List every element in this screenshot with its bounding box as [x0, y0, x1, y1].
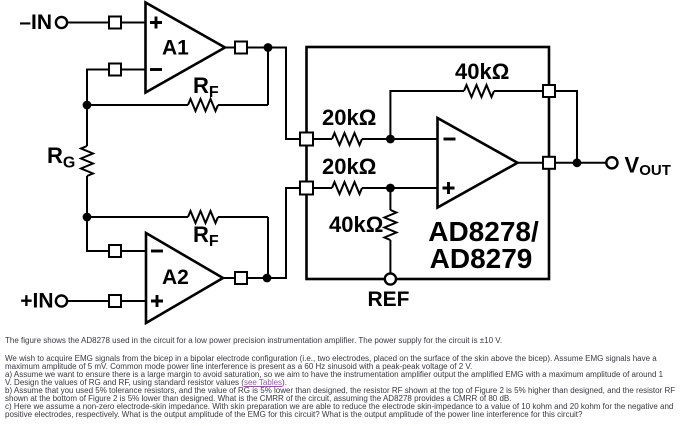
pin 1 (inverting input pin)	[300, 133, 313, 146]
wire pad to A2 plus input	[121, 300, 146, 302]
pad P6 (A2 output)	[235, 272, 247, 284]
wire junction down to 40k bottom	[389, 188, 391, 210]
resistor 20k top	[332, 133, 362, 145]
wire pad left and down to node RG-top	[87, 70, 109, 106]
resistor 40k bottom	[384, 210, 396, 240]
wire A2-out right and up to pin2	[267, 188, 300, 278]
terminal REF	[385, 273, 396, 284]
problem text paragraph	[5, 355, 700, 419]
terminal VOUT	[606, 157, 617, 168]
wire pad to junction	[247, 47, 268, 49]
resistor RF (bottom)	[188, 211, 218, 223]
wire pin1 to 20k top	[313, 138, 332, 140]
wire RF bottom to A2 output node	[218, 217, 268, 278]
wire A1 minus input to pad	[121, 69, 146, 71]
node RG-bottom junction	[83, 213, 92, 222]
wire node to RF top resistor	[87, 104, 188, 106]
IC outline AD8278	[307, 47, 550, 279]
pad P3 (A1 output)	[235, 42, 247, 54]
pad P1 (-IN)	[109, 17, 121, 29]
terminal -IN	[56, 17, 67, 28]
svg-text:40kΩ: 40kΩ	[455, 59, 509, 84]
wire node to RF bottom resistor	[87, 216, 188, 218]
wire node down to A2 minus pad	[87, 217, 109, 251]
node output junction	[573, 158, 582, 167]
node A1-out junction	[264, 43, 273, 52]
resistor RG	[81, 146, 93, 176]
wire U1 output to pad	[518, 162, 544, 164]
pad P2 (A1 inverting input)	[109, 64, 121, 76]
wire output pin to VOUT	[555, 162, 606, 164]
svg-text:RF: RF	[193, 222, 219, 250]
wire junction up to 40k top	[390, 91, 464, 139]
wire -IN to pad	[67, 22, 109, 24]
A1 minus sign	[150, 68, 162, 71]
svg-text:AD8279: AD8279	[430, 243, 533, 274]
A1 plus sign	[150, 17, 162, 29]
node A2-out junction	[263, 274, 272, 283]
wire pad to junction	[247, 277, 267, 279]
svg-text:RF: RF	[193, 73, 219, 101]
svg-text:A1: A1	[162, 37, 189, 60]
wire 40k top to pin3	[494, 90, 543, 92]
resistor 20k bottom	[332, 182, 362, 194]
node RG-top junction	[83, 101, 92, 110]
wire A1-out right and down to pin1	[268, 48, 300, 140]
svg-text:A2: A2	[162, 266, 189, 289]
wire RG bottom segment	[86, 176, 88, 217]
pad P4 (A2 inverting input)	[109, 245, 121, 257]
wire RF top to A1 output node	[218, 104, 268, 106]
wire A2 output to pad	[223, 277, 235, 279]
svg-text:+IN: +IN	[20, 290, 53, 313]
U1 plus sign	[443, 182, 455, 194]
svg-text:–IN: –IN	[19, 11, 52, 34]
node 20k/40k top junction	[386, 135, 395, 144]
wire RG top segment	[86, 105, 88, 146]
wire 40k bottom to REF	[389, 240, 391, 274]
wire 20k bottom to U1 plus input	[362, 187, 438, 189]
node 20k/40k bottom junction	[386, 184, 395, 193]
A2 plus sign	[151, 295, 163, 307]
wire A1 output to pad	[225, 47, 235, 49]
op-amp A2	[146, 233, 223, 323]
wire feedback pin to output node	[555, 91, 577, 163]
wire 20k top to U1 minus input	[362, 138, 438, 140]
caption paragraph	[5, 337, 700, 345]
svg-text:RG: RG	[47, 143, 75, 172]
svg-text:40kΩ: 40kΩ	[329, 212, 383, 237]
svg-text:VOUT: VOUT	[625, 153, 671, 180]
wire A1-out down to RF	[267, 48, 269, 106]
wire +IN to pad	[67, 300, 109, 302]
U1 minus sign	[444, 138, 456, 141]
pin 4 (output pin)	[543, 157, 555, 169]
svg-text:20kΩ: 20kΩ	[322, 154, 376, 179]
pad P5 (+IN)	[109, 295, 121, 307]
wire pin2 to 20k bottom	[313, 187, 332, 189]
A2 minus sign	[151, 250, 163, 253]
resistor 40k top	[464, 85, 494, 97]
resistor RF (top)	[188, 99, 218, 111]
pin 3 (feedback pin)	[543, 85, 555, 97]
svg-text:REF: REF	[368, 288, 410, 311]
pin 2 (non-inverting input pin)	[300, 182, 313, 195]
op-amp U1	[438, 118, 518, 208]
op-amp A1	[146, 3, 226, 93]
svg-text:20kΩ: 20kΩ	[322, 105, 376, 130]
terminal +IN	[56, 295, 67, 306]
wire pad to A1 plus input	[121, 22, 146, 24]
wire pad to A2 minus input	[121, 250, 146, 252]
